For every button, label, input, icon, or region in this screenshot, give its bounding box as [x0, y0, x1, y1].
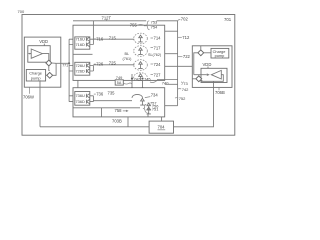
- wire left block down to bus: [39, 80, 41, 127]
- svg-text:735: 735: [108, 91, 116, 96]
- svg-text:pump: pump: [31, 75, 41, 80]
- wire mid: [73, 53, 93, 55]
- wire 5A to column: [123, 83, 132, 85]
- label 722: [178, 56, 182, 58]
- wire A output to middle: [56, 62, 69, 64]
- label 712: [178, 36, 182, 38]
- svg-text:771: 771: [62, 64, 68, 68]
- wire rail to amp input: [194, 74, 207, 76]
- dashed transistor 724: [134, 60, 148, 71]
- svg-text:754: 754: [151, 25, 158, 30]
- bus left segment: [40, 126, 149, 128]
- transistor glyph 740a: [140, 98, 144, 105]
- wire 758 row: [73, 107, 140, 109]
- label 724: [151, 63, 154, 65]
- outer box 700: [22, 15, 235, 136]
- op-amp A2 (left-pointing triangle): [211, 70, 221, 79]
- svg-text:700: 700: [18, 9, 25, 14]
- label 727: [151, 74, 154, 76]
- wire pump to D2: [46, 74, 47, 76]
- output/feedback wire A2: [202, 75, 223, 82]
- right block 706B: [192, 46, 232, 88]
- brace 753/754: [146, 21, 150, 30]
- dashed transistor 727 (dome): [134, 73, 148, 78]
- wire D1-D2 rail: [49, 63, 56, 75]
- wire D3 top stub: [200, 46, 202, 50]
- svg-text:706W: 706W: [23, 95, 34, 100]
- wire column left: [131, 74, 133, 98]
- amp box left: [28, 46, 50, 63]
- svg-text:734: 734: [151, 93, 159, 98]
- charge pump box right: [211, 48, 229, 58]
- wire cluster to box bottom: [147, 113, 149, 117]
- transistor glyph 716U: [86, 37, 89, 41]
- op-amp A1: [31, 49, 42, 58]
- wire 712 feed: [165, 30, 178, 32]
- gate stubs: [69, 39, 75, 101]
- svg-text:704: 704: [158, 125, 166, 130]
- label 716: [94, 38, 96, 40]
- drain stubs 726: [90, 66, 94, 72]
- svg-text:755: 755: [130, 22, 138, 27]
- right rail 712: [177, 21, 179, 106]
- svg-text:714: 714: [154, 36, 162, 41]
- middle lower box: [73, 88, 165, 117]
- svg-text:736U: 736U: [76, 93, 85, 98]
- junction 746: [141, 87, 143, 89]
- wire block internal down: [213, 81, 215, 87]
- bus right segment: [174, 87, 214, 126]
- transistor D2 (diamond): [47, 72, 53, 78]
- transistor glyph 756: [147, 103, 151, 110]
- drain wire 714 row: [93, 38, 134, 40]
- wire lower box to 704: [161, 117, 163, 121]
- svg-text:703B: 703B: [112, 119, 122, 124]
- junction 748: [131, 87, 133, 89]
- leader VDD down: [207, 67, 209, 69]
- svg-text:773: 773: [181, 81, 188, 86]
- svg-text:717: 717: [154, 45, 162, 50]
- charge pump box left: [26, 70, 45, 82]
- wire D3 left rail: [194, 53, 198, 75]
- middle upper box: [73, 25, 165, 80]
- svg-text:VDD: VDD: [39, 39, 48, 44]
- svg-text:712: 712: [182, 35, 190, 40]
- svg-text:702: 702: [181, 17, 189, 22]
- leader 712T: [106, 20, 108, 21]
- transistor D3 (diamond): [198, 50, 204, 56]
- svg-text:747: 747: [134, 76, 141, 81]
- svg-text:725: 725: [109, 61, 117, 66]
- svg-text:BL: BL: [125, 52, 130, 56]
- svg-text:715: 715: [109, 35, 117, 40]
- svg-text:701: 701: [224, 17, 232, 22]
- svg-text:751: 751: [152, 106, 159, 111]
- drain stubs 736: [90, 96, 94, 102]
- wire amp out to D1: [42, 54, 48, 58]
- drain wire 724 row: [93, 64, 134, 66]
- svg-text:716: 716: [96, 36, 104, 41]
- svg-text:736: 736: [96, 92, 104, 97]
- input arrow A1: [28, 53, 31, 55]
- svg-text:722: 722: [183, 54, 191, 59]
- leader 706W: [29, 87, 31, 94]
- leader 706B: [218, 87, 220, 90]
- wire rail into lower box: [165, 105, 178, 107]
- svg-text:758: 758: [115, 108, 123, 113]
- wire 740: [157, 79, 178, 81]
- svg-text:752: 752: [179, 96, 186, 101]
- junction 747: [131, 78, 133, 80]
- transistor glyph 716D: [86, 42, 89, 46]
- svg-text:pump: pump: [215, 53, 225, 58]
- label 726: [94, 63, 96, 65]
- junction 745: [141, 78, 143, 80]
- svg-text:(761): (761): [123, 57, 133, 61]
- wire D3 to pump: [204, 52, 211, 54]
- svg-text:VDD: VDD: [203, 62, 212, 67]
- svg-text:726U: 726U: [76, 63, 85, 68]
- wire D4 top stub: [198, 75, 200, 76]
- transistor pair box 736: [75, 92, 90, 106]
- svg-text:727: 727: [154, 73, 162, 78]
- leader 740: [150, 81, 157, 83]
- svg-text:724: 724: [154, 62, 162, 67]
- transistor D4 (diamond): [196, 76, 202, 82]
- wire 722 feed: [165, 53, 178, 55]
- label 717: [151, 47, 154, 49]
- amp box right: [201, 68, 227, 82]
- dashed transistor 717: [134, 46, 148, 57]
- wire 712T: [73, 20, 178, 22]
- svg-text:706B: 706B: [215, 90, 225, 95]
- transistor D1 (diamond): [46, 60, 52, 66]
- junction dot A: [68, 62, 70, 64]
- label 714: [151, 37, 154, 39]
- brace lower: [144, 104, 147, 112]
- transistor glyph 726U: [86, 63, 89, 67]
- input arrow A2: [207, 73, 210, 76]
- wire column right: [142, 80, 144, 93]
- transistor glyph 751: [147, 107, 151, 114]
- wire D4 left stub: [192, 78, 196, 80]
- transistor glyph 736U: [86, 94, 89, 98]
- svg-text:736D: 736D: [76, 99, 85, 104]
- box 5A: [115, 80, 123, 85]
- svg-text:726D: 726D: [76, 69, 85, 74]
- svg-text:5A: 5A: [117, 81, 122, 85]
- wire BL long: [165, 65, 194, 67]
- drain stubs 716: [90, 39, 94, 44]
- svg-text:716U: 716U: [76, 37, 85, 42]
- wire stub down: [101, 108, 103, 117]
- box 704: [149, 121, 173, 133]
- label 736: [94, 93, 96, 95]
- left block 706W: [24, 37, 61, 87]
- svg-text:SL(762): SL(762): [148, 53, 161, 57]
- gate rail: [68, 39, 70, 101]
- wire 742 feed: [165, 83, 178, 85]
- dome arc 740: [132, 94, 143, 97]
- stub between boxes: [77, 80, 79, 91]
- drain join vertical: [92, 21, 94, 45]
- svg-text:716D: 716D: [76, 42, 85, 47]
- svg-text:745: 745: [144, 76, 151, 81]
- wire lower box to bus: [127, 117, 129, 127]
- drain wire 736 row: [93, 100, 132, 102]
- dashed transistor 714: [134, 33, 148, 44]
- transistor glyph 726D: [86, 69, 89, 73]
- transistor pair box 716: [75, 37, 90, 49]
- svg-text:726: 726: [96, 62, 104, 67]
- wire VDD to amp: [43, 44, 45, 46]
- transistor glyph 736D: [86, 100, 89, 104]
- svg-text:742: 742: [182, 87, 189, 92]
- transistor pair box 726: [75, 62, 90, 75]
